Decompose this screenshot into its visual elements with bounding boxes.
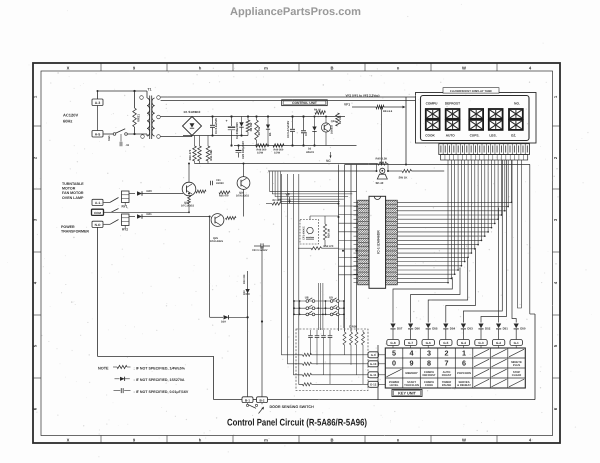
svg-text:IC-1 IZA846DR: IC-1 IZA846DR <box>377 230 381 254</box>
svg-text:G-11: G-11 <box>370 373 377 377</box>
diode D50 <box>514 324 526 340</box>
svg-text:R30 330: R30 330 <box>243 274 246 284</box>
terminal B-1 <box>242 397 253 403</box>
wire transformer bottom to bridge bottom rail <box>161 136 192 138</box>
capacitor C4 <box>301 115 308 146</box>
wire drop to B-1 with D30 <box>247 271 249 397</box>
wire A-3 to top rail <box>98 91 148 99</box>
svg-text:43/25V: 43/25V <box>216 182 224 185</box>
transistor Q25 DTA143ES <box>210 214 224 244</box>
door sensing switch <box>246 403 264 414</box>
svg-text:FAN MOTOR: FAN MOTOR <box>62 191 84 195</box>
svg-text:TURNTABLE: TURNTABLE <box>62 182 84 186</box>
relay contact RY2 <box>104 220 119 225</box>
svg-text:SW1: SW1 <box>108 135 111 141</box>
label POWER TRANSFORMER <box>61 225 89 234</box>
svg-text:R26 470: R26 470 <box>219 195 229 198</box>
display tube pin connector <box>439 144 530 160</box>
wire Q25 emitter down to D29 <box>209 217 211 318</box>
zener diode D5 <box>266 115 272 146</box>
svg-text:DTC143ES: DTC143ES <box>181 205 194 208</box>
svg-text:G-10: G-10 <box>370 362 377 366</box>
display digit 5 <box>509 109 523 130</box>
svg-text:D55: D55 <box>432 326 438 330</box>
junction dots <box>97 90 390 318</box>
svg-text:D20: D20 <box>147 189 153 193</box>
transistor Q20 DTC143ES <box>181 182 196 207</box>
varistor VRS1 <box>133 90 141 135</box>
row scan resistors <box>299 353 361 386</box>
wire VF1 with resistor R51-5.6 <box>352 105 406 113</box>
svg-text:POWER: POWER <box>61 225 75 229</box>
diode D53 <box>461 324 473 340</box>
net label VP <box>286 192 291 203</box>
svg-text:FLUORESCENT DISPLAY TUBE: FLUORESCENT DISPLAY TUBE <box>450 89 492 93</box>
svg-text:60Hz: 60Hz <box>63 119 72 124</box>
svg-text:PAUSE: PAUSE <box>442 384 451 387</box>
svg-text:R6 1W: R6 1W <box>249 122 253 131</box>
svg-text:G-3: G-3 <box>478 341 483 345</box>
border frame inner <box>41 71 553 436</box>
svg-text:LBS.: LBS. <box>489 134 496 138</box>
zener diode D3 <box>239 117 243 137</box>
svg-text:U9: U9 <box>329 296 333 300</box>
svg-text:+: + <box>225 119 227 123</box>
svg-text:W: W <box>462 437 466 442</box>
resistor R40 3.3K <box>376 157 389 172</box>
svg-text:1/2W: 1/2W <box>274 152 281 155</box>
wire B-1 to B-2 <box>253 399 257 401</box>
wire A-5 to switch <box>104 133 114 135</box>
svg-text:R4 1K: R4 1K <box>314 109 321 112</box>
svg-text:G-4: G-4 <box>461 341 466 345</box>
svg-text:W: W <box>462 65 466 70</box>
svg-text:DTA143ES: DTA143ES <box>210 240 223 243</box>
terminal N.O <box>92 221 103 227</box>
svg-text:h: h <box>199 437 202 442</box>
junction dot B2 drop <box>261 320 263 322</box>
svg-text:A-5: A-5 <box>95 133 101 137</box>
svg-text:D51: D51 <box>503 326 509 330</box>
switch array U8 <box>299 296 315 316</box>
wire Q28 emitter down <box>243 189 245 216</box>
svg-text:RY1: RY1 <box>122 204 128 208</box>
svg-text:DTA143ES: DTA143ES <box>236 195 249 198</box>
svg-text:T1: T1 <box>148 88 152 92</box>
svg-text:D56: D56 <box>415 326 421 330</box>
svg-text:C1 0.1u/54V: C1 0.1u/54V <box>214 118 218 134</box>
wire VF1 branch down to R40 <box>381 107 383 164</box>
control unit label box <box>282 100 328 106</box>
row terminal G-10 <box>361 361 385 367</box>
wire fan to key matrix diodes <box>393 160 521 323</box>
diode D51 <box>496 324 508 340</box>
wire corner down <box>213 356 215 399</box>
wire to speaker node <box>268 170 377 172</box>
row feed top bends <box>282 207 299 209</box>
svg-text:D57: D57 <box>397 326 403 330</box>
mid rail <box>234 145 357 147</box>
diode D29 <box>210 315 249 323</box>
diode D56 <box>408 324 420 340</box>
svg-text:SW 1K: SW 1K <box>399 175 408 179</box>
label TURNTABLE MOTOR FAN MOTOR OVEN LAMP <box>62 182 84 200</box>
svg-text:D52: D52 <box>485 326 491 330</box>
svg-text:R51-5.6: R51-5.6 <box>383 110 393 113</box>
svg-text:C R50: C R50 <box>349 325 357 329</box>
svg-text:A-3: A-3 <box>95 101 101 105</box>
wire rail 163 <box>195 163 377 165</box>
wire Q28 collector up <box>243 164 245 177</box>
svg-text:VP: VP <box>286 192 291 196</box>
svg-text:R5 15K: R5 15K <box>339 115 342 124</box>
svg-text:R10 470: R10 470 <box>188 149 192 160</box>
resistor R49 560 1/2W <box>273 144 284 155</box>
svg-text:DEFROST: DEFROST <box>445 102 460 106</box>
key RC network dashed outline <box>296 329 368 391</box>
resistor R27 <box>226 217 237 220</box>
rail VF2 from transformer to display <box>161 100 416 102</box>
fluorescent display tube label <box>443 88 499 93</box>
svg-text:COM: COM <box>94 211 102 215</box>
svg-text:5: 5 <box>392 349 396 358</box>
resistor R48 560 1/2W <box>256 144 267 155</box>
resistor R7 1W <box>255 115 261 146</box>
wire switch to transformer primary <box>127 133 147 135</box>
svg-text:D53: D53 <box>467 326 473 330</box>
svg-text:: IF NOT SPECIFIED, 1S5270A: : IF NOT SPECIFIED, 1S5270A <box>134 378 185 382</box>
fluorescent display tube outer box <box>416 93 537 144</box>
wire bus top rail <box>345 164 530 166</box>
transistor Q28 DTA143ES <box>236 177 250 198</box>
wire fan display connector to IC-1 <box>397 160 512 284</box>
svg-text:X: X <box>67 437 70 442</box>
display annunciator labels bottom <box>425 134 516 138</box>
key scan row wires <box>293 300 345 328</box>
svg-text:m: m <box>264 437 268 442</box>
svg-text:G-7: G-7 <box>408 341 413 345</box>
resistor R12 470 <box>198 136 202 164</box>
svg-text:NO.: NO. <box>514 102 520 106</box>
svg-text:: IF NOT SPECIFIED, 1/4W±5%: : IF NOT SPECIFIED, 1/4W±5% <box>134 366 186 370</box>
terminal B-2 <box>257 397 268 403</box>
resistor R24 <box>196 190 206 193</box>
svg-text:DOOR SENSING SWITCH: DOOR SENSING SWITCH <box>270 405 315 409</box>
gate terminal G-5 <box>440 340 452 349</box>
DC rail bottom from bridge <box>183 135 248 137</box>
capacitor C21 43/25V <box>211 179 225 185</box>
svg-text:TRANSFORMER: TRANSFORMER <box>61 230 89 234</box>
wire left bus to corner <box>98 355 214 357</box>
svg-text:h: h <box>199 65 202 70</box>
svg-text:1/2W: 1/2W <box>257 152 264 155</box>
label AC120V 60Hz <box>63 113 78 124</box>
svg-text:KEY UNIT: KEY UNIT <box>398 392 416 396</box>
IC-1 left pin row <box>358 200 369 285</box>
svg-text:B: B <box>330 437 333 442</box>
terminal A-5 <box>92 131 103 138</box>
svg-text:N.O: N.O <box>95 223 101 227</box>
resistor R5 15K <box>336 113 342 126</box>
net label VC <box>326 152 332 163</box>
svg-text:D5: D5 <box>269 132 272 136</box>
DC rail top from bridge <box>183 116 345 118</box>
svg-text:B-2: B-2 <box>260 398 265 402</box>
terminal A-3 <box>92 99 103 106</box>
row feed wires <box>282 174 303 384</box>
svg-text:G-5: G-5 <box>443 341 448 345</box>
svg-text:MEMORY: MEMORY <box>405 372 417 375</box>
wire corner to B-1 <box>214 399 242 401</box>
svg-text:VF1: VF1 <box>344 103 350 107</box>
svg-text:OVEN LAMP: OVEN LAMP <box>62 196 84 200</box>
transistor Q24 2SA933 <box>321 117 336 146</box>
svg-text:COMPU: COMPU <box>426 102 439 106</box>
display annunciator labels top <box>426 102 520 106</box>
key matrix digit keys row 1 <box>392 349 524 358</box>
capacitor C02 (line filter) <box>120 134 130 147</box>
svg-text:G-6: G-6 <box>426 341 431 345</box>
note line 3 capacitor spec <box>114 388 189 394</box>
capacitor C3 0.47u/16V <box>286 115 295 146</box>
svg-text:n: n <box>397 437 400 442</box>
svg-text:2SA933: 2SA933 <box>331 124 334 134</box>
svg-text:7: 7 <box>445 359 449 368</box>
ceramic resonator CF1 <box>300 220 319 245</box>
svg-text:CUPS.: CUPS. <box>470 134 480 138</box>
gate terminal G-7 <box>404 340 416 349</box>
diode D57 <box>390 324 402 340</box>
resistor R4 1K <box>314 109 326 115</box>
wire N.O down left bus <box>97 227 99 356</box>
svg-text:2: 2 <box>445 349 449 358</box>
svg-text:C3 0.47u/16V: C3 0.47u/16V <box>286 121 290 138</box>
bridge rectifier D1 S1WB10 <box>183 110 202 136</box>
electrolytic capacitor C2 330u/35V <box>225 115 238 146</box>
resistor R10 470 <box>188 136 196 164</box>
svg-text:AppliancePartsPros.com: AppliancePartsPros.com <box>230 6 361 18</box>
svg-text:COOK: COOK <box>425 384 433 387</box>
svg-text:B: B <box>330 65 333 70</box>
svg-text:C20 0.1u/50V: C20 0.1u/50V <box>252 249 268 252</box>
svg-text:AC120V: AC120V <box>63 113 78 118</box>
key matrix function keys row 3 <box>387 369 522 377</box>
relay coil RY1 <box>122 191 130 208</box>
speaker SP-40 <box>376 168 388 185</box>
svg-text:U8: U8 <box>305 296 309 300</box>
svg-text:: IF NOT SPECIFIED, 0.01μF/16: : IF NOT SPECIFIED, 0.01μF/16V <box>134 390 189 394</box>
frame tick marks and grid letters <box>33 63 560 443</box>
key matrix digit keys row 2 <box>392 359 522 368</box>
resistor R2 330 <box>266 199 339 205</box>
key matrix grid <box>385 348 525 388</box>
resistor SW 1K <box>388 169 444 179</box>
interlock switch SW1 <box>108 129 127 141</box>
relay coil RY2 <box>122 214 130 231</box>
wire A-3 to A-5 <box>97 106 99 131</box>
svg-text:VRS1: VRS1 <box>137 114 141 122</box>
svg-text:CONTROL UNIT: CONTROL UNIT <box>292 101 317 105</box>
svg-text:C20 330u/50V: C20 330u/50V <box>241 141 245 159</box>
svg-text:D29: D29 <box>221 321 226 324</box>
svg-text:8: 8 <box>427 359 431 368</box>
relay contact RY1 <box>104 198 119 213</box>
diode D30 <box>243 274 250 295</box>
resistor R52 470 <box>298 245 339 250</box>
svg-text:DEFROST: DEFROST <box>422 374 435 377</box>
resistor R11 56K <box>206 136 213 164</box>
svg-text:CF1 400KC: CF1 400KC <box>303 226 306 240</box>
svg-text:3: 3 <box>427 349 431 358</box>
electrolytic capacitor C20 330u/50V <box>236 141 245 159</box>
svg-text:R7 1W: R7 1W <box>257 126 261 135</box>
svg-text:.02: .02 <box>126 144 130 147</box>
svg-text:C4: C4 <box>304 132 308 136</box>
svg-text:X: X <box>67 65 70 70</box>
svg-text:R11 56K: R11 56K <box>209 150 213 161</box>
wire transformer tap to bridge top rail <box>161 116 183 118</box>
wires control area to bus <box>270 172 357 202</box>
svg-text:Q24: Q24 <box>331 120 336 123</box>
gate terminal G-2 <box>492 340 504 349</box>
display digit 2 <box>446 109 460 130</box>
resistor R26 470 <box>219 191 230 198</box>
wire display left drop <box>405 97 407 166</box>
svg-text:G-8: G-8 <box>390 341 395 345</box>
svg-text:D1 S1WB10: D1 S1WB10 <box>184 110 201 114</box>
row terminal G-12 <box>361 381 385 387</box>
svg-text:OZ.: OZ. <box>511 134 516 138</box>
wire Q20 collector up <box>188 164 190 183</box>
terminal A-1 <box>92 199 103 205</box>
wires osc to bus <box>310 216 339 246</box>
svg-text:A-1: A-1 <box>95 201 100 205</box>
svg-text:C2 330u/35V: C2 330u/35V <box>235 122 239 139</box>
resistor bank R50 <box>343 325 365 385</box>
diode D20 <box>129 189 183 196</box>
svg-text:Control Panel Circuit (R-5A86/: Control Panel Circuit (R-5A86/R-5A96) <box>227 417 367 428</box>
svg-text:G-1: G-1 <box>514 341 519 345</box>
svg-text:TOUCH-ON: TOUCH-ON <box>404 384 419 387</box>
bus drop wires through key scan <box>317 283 323 330</box>
diode D54 <box>443 324 455 340</box>
note line 2 diode spec <box>115 377 185 382</box>
key unit label box <box>392 390 422 397</box>
row terminal G-9 <box>361 352 385 358</box>
row terminal G-11 <box>361 372 385 378</box>
gate terminal G-8 <box>387 340 399 349</box>
wire Q20 emitter to COM line <box>188 204 190 213</box>
diode D21 <box>129 212 210 219</box>
terminal COM <box>92 209 104 215</box>
svg-text:AUTO: AUTO <box>446 134 455 138</box>
svg-text:0: 0 <box>392 359 396 368</box>
capacitor C20 0.1u/50V <box>252 243 270 251</box>
diode D55 <box>426 324 438 340</box>
svg-text:& REHEAT: & REHEAT <box>457 384 471 387</box>
wire relay coil bottoms <box>124 203 126 229</box>
svg-text:COOK: COOK <box>425 134 435 138</box>
svg-text:VC: VC <box>326 159 331 163</box>
svg-text:B-1: B-1 <box>245 398 250 402</box>
svg-text:1: 1 <box>462 349 466 358</box>
op IC-1 IZA846DR body <box>369 196 386 288</box>
wire COM to relay <box>111 211 189 213</box>
switch array U9 <box>325 296 340 316</box>
svg-text:NOTE: NOTE <box>98 366 109 370</box>
svg-text:ROAST: ROAST <box>442 374 452 377</box>
gate terminal G-3 <box>475 340 487 349</box>
wire drop to B-2 <box>261 246 263 397</box>
IC-1 right pin row <box>386 200 398 285</box>
IC left pin stub wires <box>339 202 358 282</box>
border frame outer <box>33 63 560 443</box>
svg-text:G-12: G-12 <box>370 383 377 387</box>
svg-text:m: m <box>264 65 268 70</box>
svg-text:MOTOR: MOTOR <box>62 187 76 191</box>
svg-text:POPCORN: POPCORN <box>457 372 471 375</box>
note line 1 resistor spec <box>98 365 186 370</box>
capacitor bank C50 <box>308 330 332 384</box>
svg-text:HZ6C3: HZ6C3 <box>306 151 315 154</box>
display digit 1 <box>426 109 440 130</box>
zener diode D2 HZ6C3 <box>306 117 317 154</box>
gate terminal G-6 <box>422 340 434 349</box>
transformer T1 <box>140 88 161 140</box>
display digit 3 <box>469 109 483 130</box>
key matrix function keys row 4 <box>389 379 524 387</box>
key unit enclosure <box>378 165 535 400</box>
svg-text:D50: D50 <box>520 326 526 330</box>
svg-text:6: 6 <box>462 359 466 368</box>
svg-text:G-2: G-2 <box>496 341 501 345</box>
svg-text:CLEAR: CLEAR <box>512 374 521 377</box>
svg-text:D54: D54 <box>450 326 456 330</box>
diode D52 <box>478 324 490 340</box>
display inner glass <box>421 96 530 141</box>
svg-text:VF2 (VF1 to VF2 2.2Vac): VF2 (VF1 to VF2 2.2Vac) <box>346 94 380 98</box>
display digit 4 <box>489 109 503 130</box>
svg-text:SP-40: SP-40 <box>376 181 384 185</box>
svg-text:LEVEL: LEVEL <box>390 384 399 387</box>
gate terminal G-1 <box>510 340 522 349</box>
resistor R39 1M <box>323 224 330 240</box>
svg-text:n: n <box>397 65 400 70</box>
svg-text:R39 1M: R39 1M <box>328 229 331 238</box>
gate terminal G-4 <box>457 340 469 349</box>
resistor R6 1W <box>246 115 253 135</box>
top rail VF3 from transformer to display <box>161 96 416 98</box>
svg-text:D30: D30 <box>243 290 246 295</box>
capacitor C1 0.1u/54V <box>210 115 218 136</box>
bus wires left of IC-1 <box>334 165 357 332</box>
svg-text:PLUS: PLUS <box>513 364 521 367</box>
wire B-2 to key unit enclosure <box>268 399 536 401</box>
svg-text:9: 9 <box>410 359 414 368</box>
